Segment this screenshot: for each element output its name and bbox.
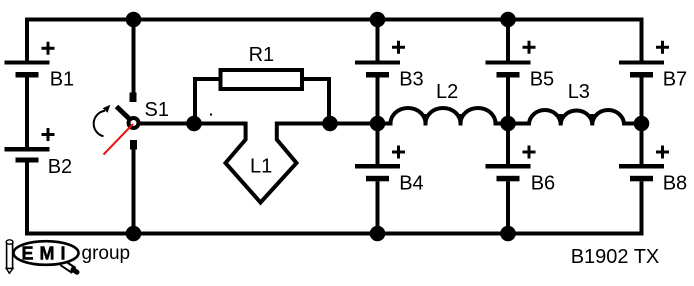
svg-text:B5: B5: [530, 69, 554, 91]
svg-text:B4: B4: [399, 172, 423, 194]
svg-text:L2: L2: [436, 81, 458, 103]
svg-text:L3: L3: [568, 81, 590, 103]
svg-text:B8: B8: [663, 172, 687, 194]
svg-text:B1: B1: [50, 69, 74, 91]
svg-text:B6: B6: [531, 172, 555, 194]
svg-text:B3: B3: [399, 69, 423, 91]
svg-text:B1902 TX: B1902 TX: [571, 246, 660, 268]
svg-text:B2: B2: [48, 156, 72, 178]
svg-text:L1: L1: [250, 156, 272, 178]
svg-text:group: group: [82, 243, 131, 264]
svg-text:B7: B7: [663, 69, 687, 91]
svg-text:R1: R1: [249, 44, 275, 66]
svg-text:S1: S1: [145, 99, 169, 121]
svg-text:EMI: EMI: [22, 244, 72, 264]
